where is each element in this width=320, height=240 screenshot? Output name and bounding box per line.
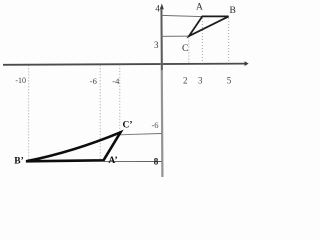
svg-text:C’: C’	[122, 121, 132, 131]
svg-text:3: 3	[154, 40, 159, 50]
helper line y=3	[161, 35, 189, 37]
svg-text:4: 4	[155, 4, 160, 14]
svg-text:3: 3	[198, 76, 203, 86]
svg-text:-10: -10	[15, 76, 26, 85]
dotted line x=2	[188, 38, 190, 64]
svg-text:C: C	[182, 44, 188, 54]
triangle ABC	[189, 16, 229, 36]
svg-text:-6: -6	[151, 120, 158, 130]
dotted line x=-6	[99, 65, 101, 159]
dotted line x=3	[201, 18, 203, 63]
y-axis	[160, 3, 164, 177]
dotted line x=5	[228, 18, 230, 63]
svg-text:B’: B’	[14, 156, 24, 166]
triangle A'B'C'	[26, 132, 121, 161]
helper line y=4	[162, 15, 203, 16]
dotted line x=-4	[119, 65, 121, 135]
svg-text:A: A	[196, 3, 203, 13]
x-axis	[3, 61, 249, 66]
helper line y=-6	[120, 134, 162, 135]
svg-text:A’: A’	[108, 156, 117, 166]
svg-text:2: 2	[183, 76, 188, 86]
dotted line x=-10	[28, 65, 30, 159]
helper line y=-8	[104, 160, 162, 162]
svg-text:-4: -4	[112, 76, 120, 86]
svg-text:5: 5	[227, 76, 232, 86]
svg-text:-6: -6	[90, 76, 97, 86]
svg-text:8: 8	[154, 156, 159, 166]
svg-text:B: B	[230, 6, 236, 16]
